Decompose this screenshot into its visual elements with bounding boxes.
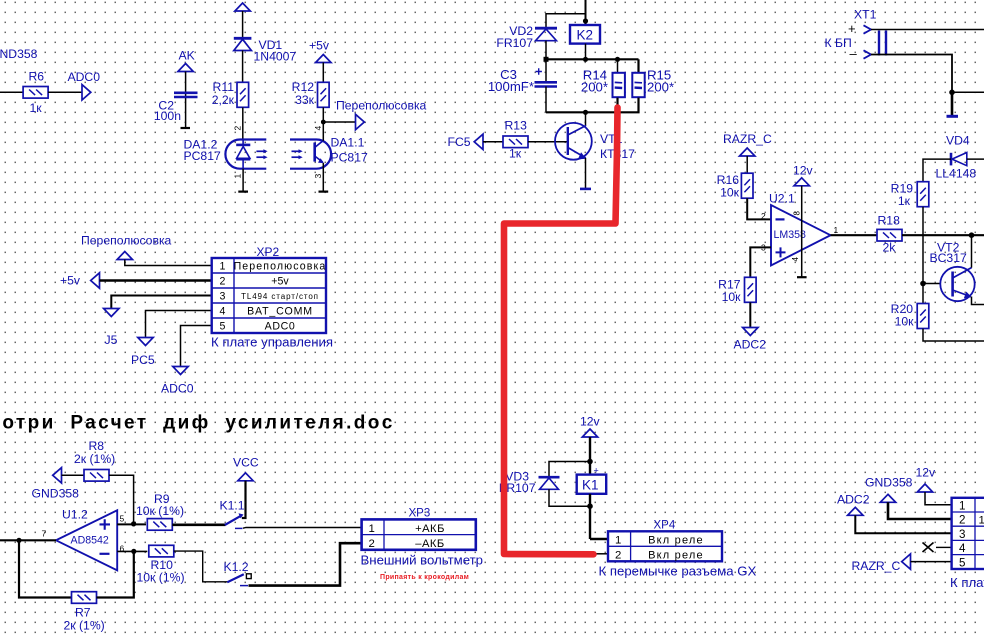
svg-text:VD4: VD4 [946,134,970,148]
svg-text:R8: R8 [89,439,105,453]
svg-text:R6: R6 [29,70,45,84]
wire VD4 right [967,158,984,160]
relay coil K1 [577,475,607,494]
light arrows of DA1.2 [256,149,267,159]
svg-text:4: 4 [313,126,323,131]
XT1 pin chevrons [864,25,872,58]
wire XP5 pin3 [855,515,951,533]
wire [483,141,503,143]
resistor R17 [745,277,757,302]
wire 12v to op-amp [801,186,803,277]
svg-text:XP3: XP3 [409,508,431,520]
svg-text:4: 4 [959,542,966,555]
resistor R14 [613,73,625,97]
resistor R8 [84,470,109,482]
wire pin4 of DA1.1 [322,139,324,142]
svg-text:2: 2 [233,126,243,131]
diode VD1 [234,38,252,50]
svg-text:12v: 12v [580,415,601,429]
connector XP4 [608,531,722,561]
svg-text:ADC2: ADC2 [734,338,767,352]
resistor R16 [741,173,753,198]
svg-text:FC5: FC5 [448,135,471,149]
red marker line [504,108,618,555]
svg-text:8: 8 [793,211,802,216]
plus input mark [776,247,786,257]
wire [185,72,187,128]
svg-text:10к (1%): 10к (1%) [136,504,184,518]
svg-text:5: 5 [120,514,125,524]
node Переполюсовка [356,114,365,129]
svg-text:U2.1: U2.1 [769,192,795,206]
svg-text:Вкл реле: Вкл реле [648,534,704,546]
junction [583,57,588,62]
ground [947,115,959,118]
node ADC0 [82,85,91,100]
svg-text:PC5: PC5 [131,353,155,367]
svg-text:12v: 12v [916,466,937,480]
svg-text:100mF*: 100mF* [488,79,534,94]
svg-text:–АКБ: –АКБ [415,538,445,550]
wire R14 stub [617,59,619,72]
wire to ground bar [951,92,954,115]
wire pin1 of DA1.2 [242,169,244,192]
svg-text:Смотри Расчет диф усилителя.do: Смотри Расчет диф усилителя.doc [0,413,395,434]
transistor VT2 [940,267,974,301]
svg-text:ADC0: ADC0 [68,70,101,84]
LED diode of DA1.2 [236,140,250,169]
wire K1.1 to XP3 pin1 [243,527,362,530]
resistor R15 [632,73,644,97]
svg-text:XP2: XP2 [257,245,280,259]
wire to VD2 [546,14,586,29]
svg-text:1: 1 [834,225,839,235]
resistor R18 [877,229,902,241]
wire end tick [580,188,591,191]
plus input mark [100,519,111,530]
junction [544,57,549,62]
wire XP2 pin4 [146,311,212,338]
wire [322,63,324,82]
wire [242,107,244,140]
junction [920,281,926,287]
wire VT1 emitter [585,158,587,188]
svg-text:+5v: +5v [309,39,330,53]
svg-text:5: 5 [959,556,965,569]
wire [242,11,244,39]
wire XP2 pin3 [111,296,211,309]
wire VT2 collector [971,235,973,267]
svg-text:2к (1%): 2к (1%) [64,619,105,633]
svg-text:PC817: PC817 [331,151,368,165]
wire [322,107,324,140]
svg-text:33к: 33к [295,93,315,107]
light arrows of DA1.1 [292,149,303,159]
minus input mark [100,553,110,555]
svg-text:XT1: XT1 [854,8,877,22]
svg-text:K1: K1 [582,477,599,492]
svg-text:1: 1 [615,534,621,546]
wire VT1 collector [585,112,587,126]
wire XP4 pin2 stub [593,553,608,555]
svg-text:2: 2 [220,276,226,288]
wire pin3 of U2.1 [750,247,771,277]
svg-text:Переполюсовка: Переполюсовка [336,99,427,113]
wire R20 to right edge [923,329,984,341]
node ADC2 [743,328,758,336]
resistor R6 [23,87,48,99]
wire to right edge [952,91,984,93]
svg-text:2,2к: 2,2к [212,93,235,107]
svg-text:7: 7 [42,529,47,539]
wire K2 bottom [585,44,587,60]
svg-text:BAT_COMM: BAT_COMM [247,306,313,318]
svg-text:10к: 10к [722,290,742,304]
resistor R10 [149,545,174,557]
wire R9 to K1.1 [172,523,225,526]
svg-text:14: 14 [979,515,984,527]
node ADC0 (bottom) [173,367,188,375]
junction [949,90,955,96]
junction [131,549,136,554]
svg-text:J5: J5 [105,333,118,347]
wire XT1 plus [871,29,984,31]
wire end tick [238,191,248,193]
svg-text:+АКБ: +АКБ [415,523,445,535]
wire [545,41,547,60]
wire end tick [181,127,191,129]
svg-text:3: 3 [313,174,323,179]
junction [615,110,620,115]
svg-text:2k: 2k [883,241,897,255]
wire R19 down across output [922,207,924,284]
svg-text:К БП: К БП [825,36,852,50]
wire to Переполюсовка arrow [323,121,355,123]
junction [587,459,593,465]
svg-text:3: 3 [959,528,965,541]
wire [746,156,748,173]
svg-text:1к: 1к [30,101,43,115]
svg-text:K1.2: K1.2 [224,560,249,574]
svg-text:К плате управления: К плате управления [950,575,984,590]
wire K1 bottom [589,494,591,539]
svg-text:VCC: VCC [233,456,259,470]
svg-text:ADC0: ADC0 [265,321,296,333]
wire end tick [319,191,329,193]
XP2 row labels [234,261,327,333]
diode VD3 [539,477,560,489]
svg-text:200*: 200* [581,80,608,95]
wire XT1 minus [871,55,952,93]
svg-text:R13: R13 [505,119,528,133]
wire [749,302,751,327]
XT1 connector bars [879,31,886,56]
resistor R11 [237,82,249,107]
resistor R9 [147,519,172,531]
svg-text:R18: R18 [878,214,901,228]
svg-text:FR107: FR107 [496,36,533,50]
junction [583,110,588,115]
wire [48,91,82,93]
wire [0,91,24,93]
XP5 pin numbers [959,500,966,570]
wire R15 stub [637,59,639,72]
svg-text:GND358: GND358 [0,47,38,61]
svg-text:4: 4 [220,306,226,318]
svg-text:1: 1 [233,174,243,179]
wire to XP4 pin1 [590,538,608,540]
svg-text:BC317: BC317 [930,251,967,265]
svg-text:+5v: +5v [60,274,81,288]
svg-text:U1.2: U1.2 [62,508,88,522]
wire C3 left leg [545,59,547,82]
wire VCC to K1.1 [242,481,246,518]
svg-text:R7: R7 [75,606,91,620]
svg-text:4: 4 [791,257,800,262]
svg-text:К плате управления: К плате управления [211,335,333,350]
diode VD2 [535,28,557,41]
wire to pin2 of U2.1 [747,198,771,219]
svg-text:100n: 100n [154,109,181,123]
wire pin5 [117,523,146,525]
resistor R20 [922,284,924,304]
svg-text:Переполюсовка: Переполюсовка [81,234,172,248]
svg-text:2: 2 [761,211,766,221]
svg-text:2: 2 [369,538,375,550]
svg-text:+5v: +5v [271,276,289,288]
wire U2.1 output [831,234,878,236]
svg-text:2к (1%): 2к (1%) [74,452,115,466]
junction [615,57,620,62]
diode VD4 [951,153,967,166]
wire 12v down to K1 [589,437,591,475]
wire end tick [797,276,807,278]
node J5 [104,309,119,317]
svg-text:1к: 1к [509,147,522,161]
svg-text:10к: 10к [895,315,915,329]
wire R7 to pin6 node [97,551,134,597]
wire upper bus [545,58,639,60]
svg-text:1: 1 [220,261,226,273]
junction [321,120,326,125]
svg-text:AK: AK [179,49,195,63]
svg-text:PC817: PC817 [184,149,221,163]
wire pin6 [117,550,147,552]
connector XP2 [212,258,326,333]
wire K1.2 to XP3 pin2 [249,543,362,585]
svg-text:GND358: GND358 [865,476,913,490]
wire XP2 pin1 [125,260,212,266]
XP3 row labels [415,523,445,550]
wire XP2 pin2 [100,279,212,282]
wire XP5 pin2 [888,502,952,519]
wire VT2 emitter [972,297,984,305]
svg-text:2: 2 [615,549,621,561]
wire XP5 pin5 [911,561,952,563]
wire R10 to K1.2 [174,551,228,582]
resistor R19 [917,182,929,207]
svg-text:2: 2 [959,514,965,527]
svg-text:К перемычке разъема GX: К перемычке разъема GX [599,564,757,579]
svg-text:+: + [594,466,599,476]
capacitor C3 [535,68,558,86]
svg-text:5: 5 [220,321,226,333]
junction [583,18,588,23]
svg-text:1N4007: 1N4007 [254,50,297,64]
svg-text:Вкл реле: Вкл реле [648,549,704,561]
wire pin3 of DA1.1 [322,163,324,191]
svg-text:LL4148: LL4148 [936,167,977,181]
svg-text:+: + [848,21,856,36]
svg-text:10к: 10к [720,186,740,200]
optocoupler DA1.2 (LED side) [225,140,266,169]
wire VD4 left to R19 [923,159,951,181]
svg-text:Припаять к крокодилам: Припаять к крокодилам [380,574,469,581]
resistor R13 [503,136,528,148]
svg-text:1к: 1к [898,194,911,208]
svg-text:TL494 старт/стоп: TL494 старт/стоп [241,292,319,301]
phototransistor of DA1.1 [315,141,324,164]
svg-text:Переполюсовка: Переполюсовка [234,261,327,273]
wire [242,51,244,83]
junction [131,521,136,526]
wire [528,141,568,143]
svg-text:ADC0: ADC0 [161,382,194,396]
junction [587,503,593,509]
wire VD3 loop bottom [549,489,590,506]
minus input mark [776,218,785,220]
transistor VT1 [555,123,592,160]
svg-text:AD8542: AD8542 [71,535,109,547]
optocoupler DA1.1 (transistor side) [290,140,331,169]
svg-text:10к (1%): 10к (1%) [137,571,185,585]
wire R18 to right edge [902,234,984,236]
svg-text:ADC2: ADC2 [837,493,870,507]
relay coil K2 [570,25,600,44]
svg-text:3: 3 [220,291,226,303]
svg-text:Внешний вольтметр: Внешний вольтметр [361,553,484,568]
connector XP5 [952,498,984,569]
svg-text:200*: 200* [647,80,674,95]
op-amp U1.2 (mirrored) [56,510,117,570]
svg-text:RAZR_C: RAZR_C [852,559,901,573]
svg-text:–: – [850,46,858,61]
resistor R12 [318,82,330,107]
svg-text:DA1.1: DA1.1 [331,136,365,150]
svg-text:RAZR_C: RAZR_C [723,132,772,146]
wire feedback down [19,540,72,597]
svg-text:12v: 12v [793,164,814,178]
wire from top edge to K2 [585,0,587,25]
junction [16,538,21,543]
wire lower bus [546,98,639,113]
wire U1.2 output [0,539,56,541]
wire XP2 pin5 [181,326,212,367]
wire XP5 pin1 [925,492,952,505]
svg-text:K1.1: K1.1 [220,499,245,513]
wire [62,474,85,476]
no-connect cross XP5 pin4 [923,543,952,553]
XP2 pin numbers [220,261,226,333]
op-amp U2.1 [771,205,831,266]
resistor R7 [72,592,97,604]
connector XP3 [362,519,476,549]
wire R8 to pin5 node [109,475,134,524]
svg-text:1: 1 [369,523,375,535]
wire VD3 loop top [549,462,590,478]
XP4 pin numbers [615,534,621,561]
capacitor C2 [174,93,198,97]
power arrow (top of VD1) [235,3,250,11]
XP4 row labels [648,534,704,561]
svg-text:XP4: XP4 [654,520,676,532]
wire [545,87,547,113]
svg-text:1: 1 [959,500,965,513]
junction [969,232,975,238]
svg-text:GND358: GND358 [32,487,80,501]
wire VT2 base [923,283,941,285]
XP3 pin numbers [369,523,375,550]
svg-text:K2: K2 [577,27,594,42]
node PC5 [138,338,153,346]
